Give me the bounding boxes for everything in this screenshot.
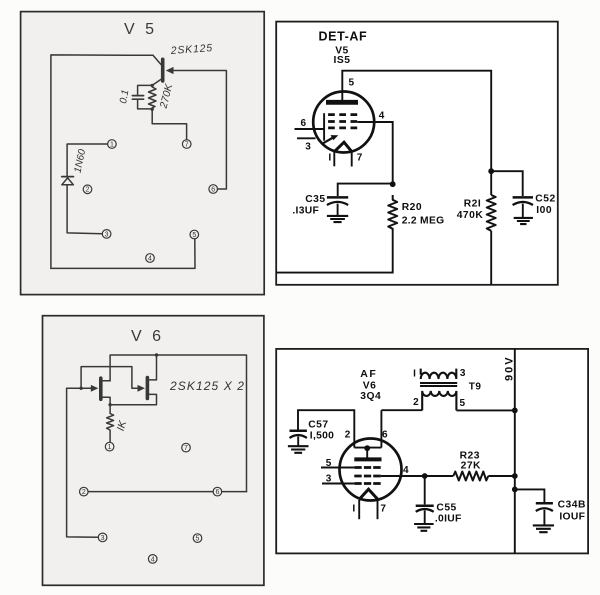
plate tie bar xyxy=(354,447,381,449)
QA source lead xyxy=(102,397,110,405)
svg-text:I: I xyxy=(352,504,355,515)
QB gate arrowhead xyxy=(138,385,146,392)
capacitor C34B plates xyxy=(536,502,553,505)
wire drain lead diagonal xyxy=(153,55,161,64)
capacitor C52 lower lead xyxy=(522,204,524,218)
tube V6 plate xyxy=(354,457,381,461)
transistor Q V5 2SK125 channel bar xyxy=(161,59,165,81)
wire pin1 to diode xyxy=(67,144,108,176)
svg-text:5: 5 xyxy=(326,458,332,469)
ground under C55 xyxy=(414,524,434,531)
pin 1 xyxy=(105,442,114,451)
svg-text:7: 7 xyxy=(184,445,188,452)
svg-text:I: I xyxy=(413,369,416,380)
ground under C35 xyxy=(327,216,348,222)
transformer T9 primary xyxy=(421,369,457,379)
svg-text:3: 3 xyxy=(305,142,311,153)
wire R21 bottom to frame xyxy=(490,231,492,285)
capacitor C55 upper lead xyxy=(424,476,426,504)
svg-text:C52: C52 xyxy=(535,194,555,205)
transformer T9 core xyxy=(420,383,457,386)
rail junction dot xyxy=(488,168,494,174)
resistor 270K zigzag xyxy=(149,85,157,109)
svg-text:DET-AF: DET-AF xyxy=(319,30,368,44)
wire pin5 riser and top rail xyxy=(342,71,491,195)
wire diode to pin 3 xyxy=(67,185,102,234)
rail junction dot T9 xyxy=(512,408,518,414)
wire secondary to rail xyxy=(456,409,514,411)
svg-text:AF: AF xyxy=(360,368,377,380)
QB source lead xyxy=(110,394,156,404)
pin 3 arrow to filament xyxy=(322,137,335,144)
wire gate from pin6 rail xyxy=(173,71,227,190)
ground under C52 xyxy=(514,218,533,224)
panel frame V6 xyxy=(43,316,264,586)
wire top rail xyxy=(110,355,246,492)
ground under C34B xyxy=(533,525,554,532)
pin 7 xyxy=(182,443,191,452)
gate node dot xyxy=(79,387,82,390)
wire pin5 bottom loop xyxy=(51,239,195,269)
tube V5 envelope xyxy=(313,92,374,153)
gate arrowhead xyxy=(166,67,174,74)
wire R20 bottom to frame xyxy=(276,231,393,273)
capacitor 0.1 plates xyxy=(132,96,143,100)
svg-text:I,500: I,500 xyxy=(310,431,334,442)
pin 4 xyxy=(146,254,155,263)
capacitor C34B lower lead xyxy=(543,510,545,525)
svg-text:C57: C57 xyxy=(308,420,328,431)
svg-text:2: 2 xyxy=(413,397,419,408)
pin 7 lead xyxy=(351,152,353,167)
svg-text:7: 7 xyxy=(185,141,189,148)
svg-text:27K: 27K xyxy=(461,461,481,472)
svg-text:3: 3 xyxy=(101,535,105,542)
pin 5 xyxy=(193,534,202,543)
svg-text:V 5: V 5 xyxy=(124,21,157,38)
QA drain lead xyxy=(102,380,110,382)
wire node to R23 xyxy=(425,475,454,477)
resistor R20 zigzag xyxy=(388,195,397,231)
QB drain lead xyxy=(149,355,156,380)
resistor R23 zigzag xyxy=(453,472,488,481)
wire source diagonal xyxy=(152,79,161,85)
svg-text:4: 4 xyxy=(148,255,152,262)
transistor QA 2SK125 channel bar xyxy=(99,378,103,399)
svg-text:2: 2 xyxy=(82,489,86,496)
capacitor 0.1 leads xyxy=(138,85,153,109)
wire pin6 to right rail xyxy=(222,491,247,493)
capacitor C55 plates xyxy=(416,504,434,507)
source node dot xyxy=(108,403,111,406)
QA gate arrowhead xyxy=(91,385,99,392)
svg-text:IOUF: IOUF xyxy=(559,512,585,523)
tube V6 filament xyxy=(359,489,379,500)
svg-text:5: 5 xyxy=(196,536,200,543)
rail junction dot C34B xyxy=(512,487,518,493)
svg-text:1: 1 xyxy=(110,141,114,148)
plate stub xyxy=(366,448,368,458)
tube V5 grid rail xyxy=(323,113,325,141)
panel frame AF xyxy=(276,349,588,554)
tube V5 grid row 1 xyxy=(328,113,357,116)
pin 4 xyxy=(148,555,157,564)
svg-text:T9: T9 xyxy=(469,382,482,393)
svg-text:90V: 90V xyxy=(504,355,516,381)
svg-text:4: 4 xyxy=(379,111,385,122)
tube V5 plate xyxy=(326,100,358,105)
capacitor C55 lower lead xyxy=(424,511,426,524)
wire pin6 riser to secondary xyxy=(381,410,422,447)
transformer T9 secondary xyxy=(422,391,456,411)
pin 6 xyxy=(209,185,218,194)
wire left rail to pin 3 xyxy=(67,388,99,537)
capacitor C35 plates xyxy=(327,196,348,199)
90V rail xyxy=(514,349,516,554)
pin 1 lead xyxy=(333,152,335,167)
capacitor C57 plates xyxy=(290,429,307,432)
wire gate bus to QB xyxy=(81,367,138,389)
pin 5 xyxy=(190,230,199,239)
wire pin 3 xyxy=(322,483,354,485)
svg-text:3: 3 xyxy=(326,473,332,484)
wire node to C35 xyxy=(338,184,393,196)
svg-text:IS5: IS5 xyxy=(334,55,351,66)
panel frame V5 xyxy=(21,12,265,295)
wire C57 to pin2 riser xyxy=(298,410,354,447)
svg-text:7: 7 xyxy=(380,504,386,515)
diode 1N60 triangle xyxy=(62,178,74,185)
svg-text:C35: C35 xyxy=(305,194,325,205)
resistor R21 zigzag xyxy=(487,195,496,231)
svg-text:6: 6 xyxy=(215,489,219,496)
panel frame DET-AF xyxy=(276,22,558,285)
pin 1 lead xyxy=(358,500,360,519)
svg-text:6: 6 xyxy=(382,429,388,440)
svg-text:2SK125 X 2: 2SK125 X 2 xyxy=(169,379,245,393)
svg-text:1: 1 xyxy=(108,444,112,451)
transistor QB 2SK125 channel bar xyxy=(146,378,150,399)
svg-text:7: 7 xyxy=(357,153,363,164)
svg-text:R20: R20 xyxy=(402,202,422,213)
svg-text:C34B: C34B xyxy=(558,499,586,510)
pin 3 xyxy=(98,533,107,542)
tube V5 filament xyxy=(334,142,352,152)
diode 1N60 cathode bar xyxy=(62,176,74,178)
tube V6 grid row 3 xyxy=(354,482,380,485)
svg-text:I: I xyxy=(328,153,331,164)
svg-text:6: 6 xyxy=(211,186,215,193)
tube V5 grid row 3 xyxy=(328,127,357,130)
svg-text:3Q4: 3Q4 xyxy=(360,391,381,402)
wire pin 6 xyxy=(295,128,325,130)
capacitor C52 plates xyxy=(513,196,533,199)
wire pin 4 to node xyxy=(381,475,425,477)
svg-text:V6: V6 xyxy=(363,380,377,391)
wire C34B branch xyxy=(515,489,545,502)
ground under C57 xyxy=(288,446,309,453)
tube V6 grid row 1 xyxy=(354,466,380,469)
capacitor C57 lower lead xyxy=(297,437,299,447)
pin 6 xyxy=(213,487,222,496)
svg-text:5: 5 xyxy=(192,232,196,239)
svg-text:2: 2 xyxy=(345,429,351,440)
svg-text:V 6: V 6 xyxy=(131,328,164,345)
wire pin2 to pin6 xyxy=(88,491,213,493)
node junction dot C55 xyxy=(422,473,428,479)
node bottom junction dot xyxy=(151,108,154,111)
wire pin 5 xyxy=(321,467,354,469)
svg-text:2: 2 xyxy=(86,187,90,194)
svg-text:.I3UF: .I3UF xyxy=(292,205,319,216)
resistor 1K zigzag xyxy=(107,405,114,442)
node junction dot xyxy=(390,181,396,187)
wire left rail and top wire xyxy=(51,55,153,269)
pin 7 lead xyxy=(377,500,379,519)
wire node to C52 xyxy=(491,171,523,196)
pin 2 xyxy=(80,487,89,496)
pin 7 xyxy=(182,140,191,149)
svg-text:R2I: R2I xyxy=(464,199,482,210)
capacitor C35 lower lead xyxy=(337,204,339,216)
QA gate wire from left rail xyxy=(67,387,92,389)
wire pin 4 to node xyxy=(357,122,392,184)
wire R23 to rail xyxy=(488,475,515,477)
wire to pin 7 xyxy=(152,109,186,140)
svg-text:.0IUF: .0IUF xyxy=(435,514,462,525)
plate node dot xyxy=(364,445,370,451)
svg-text:3: 3 xyxy=(460,368,466,379)
svg-text:6: 6 xyxy=(301,118,307,129)
svg-text:5: 5 xyxy=(460,398,466,409)
svg-text:2.2 MEG: 2.2 MEG xyxy=(402,216,445,227)
rail junction dot R23 xyxy=(512,473,518,479)
tube V5 grid row 2 xyxy=(328,120,357,123)
tube V6 grid row 2 xyxy=(354,475,380,478)
pin 3 xyxy=(102,230,111,239)
svg-text:4: 4 xyxy=(403,465,409,476)
svg-text:5: 5 xyxy=(349,78,355,89)
svg-text:C55: C55 xyxy=(436,503,456,514)
svg-text:4: 4 xyxy=(151,556,155,563)
rail junction dot xyxy=(155,353,159,357)
svg-text:3: 3 xyxy=(105,231,109,238)
pin 2 xyxy=(83,185,92,194)
svg-text:I00: I00 xyxy=(536,205,552,216)
tube V6 envelope xyxy=(340,439,402,501)
svg-text:470K: 470K xyxy=(457,210,484,221)
pin 1 xyxy=(108,140,117,149)
wire pin 3 xyxy=(297,137,316,139)
node top junction dot xyxy=(151,84,154,87)
